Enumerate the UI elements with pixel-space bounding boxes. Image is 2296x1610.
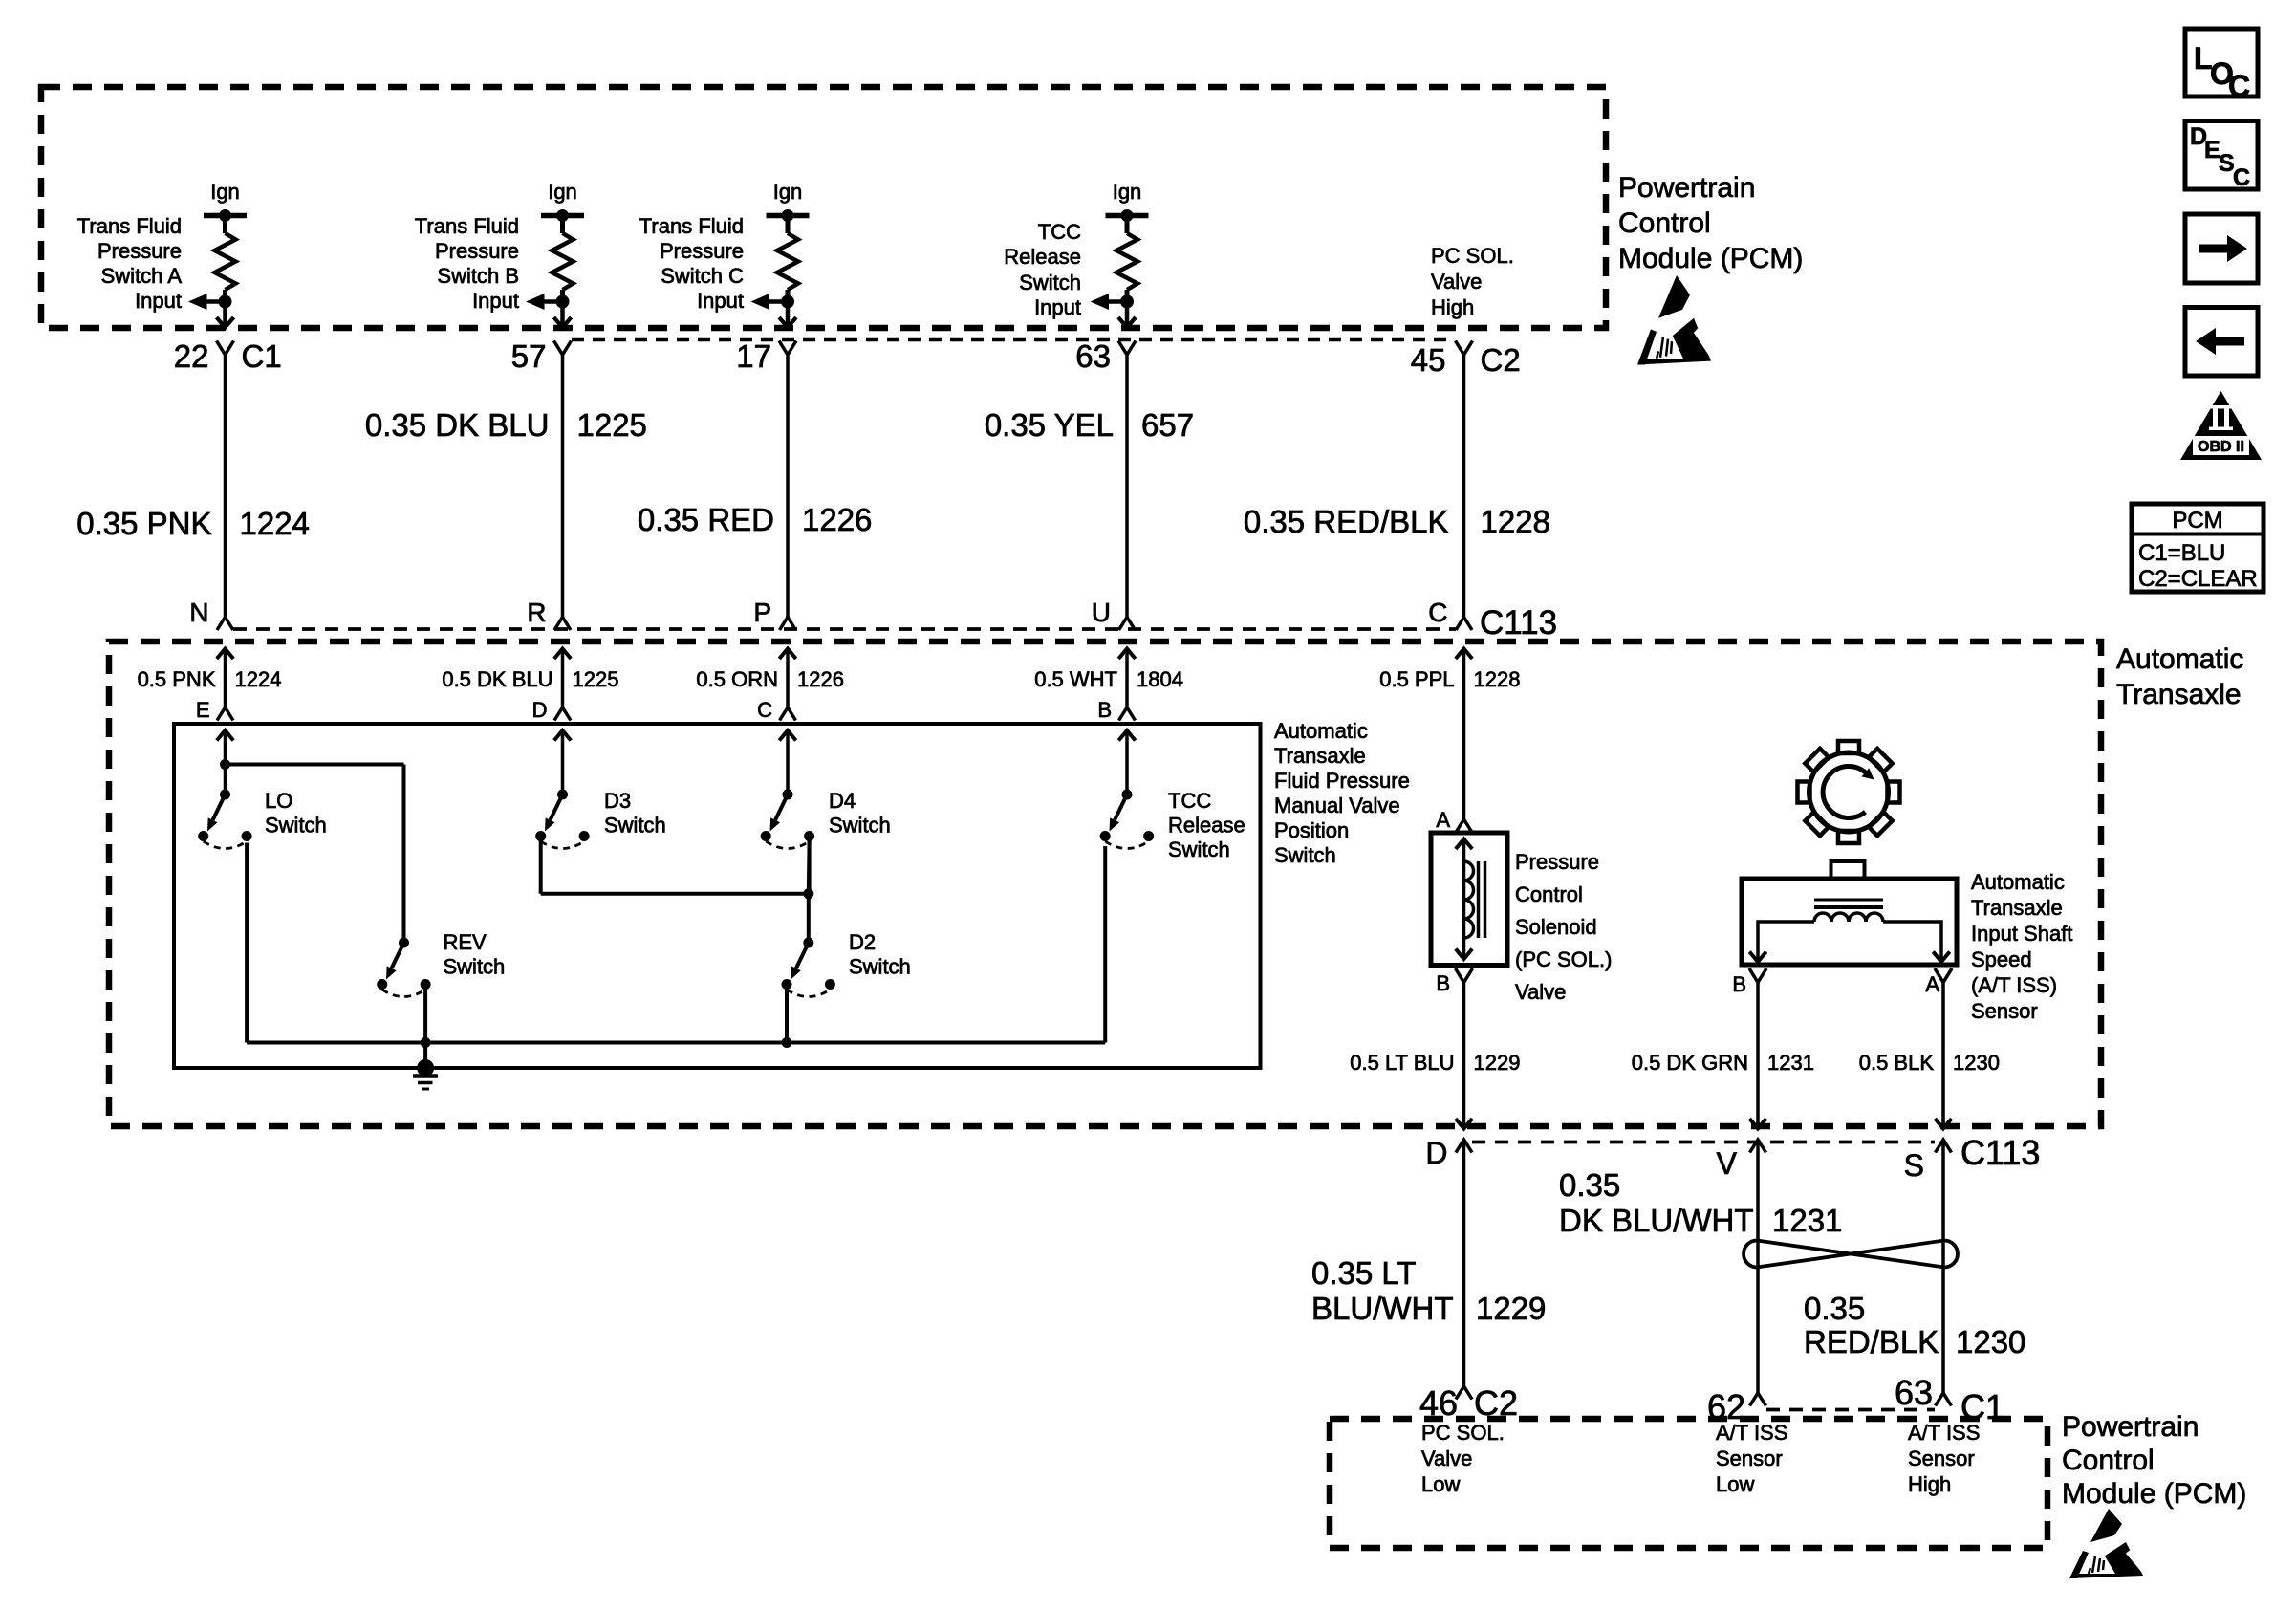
svg-text:1229: 1229 bbox=[1476, 1291, 1546, 1326]
svg-text:Switch: Switch bbox=[604, 814, 666, 838]
svg-text:Control: Control bbox=[1618, 207, 1711, 239]
svg-text:Pressure: Pressure bbox=[97, 239, 182, 263]
svg-text:1226: 1226 bbox=[802, 502, 872, 537]
svg-text:OBD II: OBD II bbox=[2198, 439, 2244, 455]
svg-text:Switch: Switch bbox=[1168, 838, 1230, 861]
svg-text:Powertrain: Powertrain bbox=[1618, 172, 1755, 204]
svg-text:V: V bbox=[1717, 1146, 1738, 1181]
svg-text:1228: 1228 bbox=[1474, 667, 1521, 691]
svg-text:1225: 1225 bbox=[577, 407, 647, 443]
svg-text:Trans Fluid: Trans Fluid bbox=[77, 214, 182, 238]
svg-text:46: 46 bbox=[1419, 1383, 1458, 1423]
svg-text:PC SOL.: PC SOL. bbox=[1421, 1421, 1505, 1445]
svg-text:0.5 ORN: 0.5 ORN bbox=[696, 667, 778, 691]
svg-text:C2: C2 bbox=[1474, 1383, 1518, 1423]
svg-text:Automatic: Automatic bbox=[1971, 870, 2065, 894]
svg-text:0.5 WHT: 0.5 WHT bbox=[1034, 667, 1117, 691]
svg-text:Ign: Ign bbox=[548, 180, 577, 204]
svg-text:Transaxle: Transaxle bbox=[1971, 896, 2063, 920]
svg-text:22: 22 bbox=[174, 338, 209, 374]
svg-text:0.5 DK GRN: 0.5 DK GRN bbox=[1632, 1051, 1748, 1075]
svg-text:Switch C: Switch C bbox=[661, 264, 744, 288]
svg-text:Ign: Ign bbox=[1113, 180, 1142, 204]
svg-text:Input Shaft: Input Shaft bbox=[1971, 922, 2072, 946]
svg-text:Switch: Switch bbox=[1019, 271, 1081, 294]
svg-text:Pressure: Pressure bbox=[660, 239, 744, 263]
svg-text:BLU/WHT: BLU/WHT bbox=[1311, 1291, 1454, 1326]
svg-text:D4: D4 bbox=[829, 789, 856, 813]
svg-text:High: High bbox=[1431, 295, 1474, 319]
svg-text:Ign: Ign bbox=[210, 180, 240, 204]
svg-text:Switch: Switch bbox=[829, 814, 891, 838]
svg-text:Manual Valve: Manual Valve bbox=[1274, 794, 1400, 817]
svg-text:Input: Input bbox=[135, 289, 182, 313]
svg-text:1224: 1224 bbox=[240, 506, 310, 541]
svg-text:D2: D2 bbox=[849, 930, 876, 954]
svg-text:Trans Fluid: Trans Fluid bbox=[639, 214, 744, 238]
svg-text:C: C bbox=[2233, 164, 2250, 191]
svg-text:Solenoid: Solenoid bbox=[1515, 915, 1597, 939]
svg-text:Trans Fluid: Trans Fluid bbox=[415, 214, 519, 238]
svg-text:B: B bbox=[1436, 971, 1450, 995]
svg-text:0.35 DK BLU: 0.35 DK BLU bbox=[365, 407, 550, 443]
svg-text:C: C bbox=[757, 698, 772, 722]
svg-text:REV: REV bbox=[444, 930, 487, 954]
svg-text:17: 17 bbox=[736, 338, 771, 374]
svg-text:1804: 1804 bbox=[1137, 667, 1183, 691]
svg-text:Automatic: Automatic bbox=[2116, 643, 2243, 675]
svg-text:Input: Input bbox=[472, 289, 519, 313]
svg-text:Transaxle: Transaxle bbox=[1274, 744, 1366, 768]
svg-text:1225: 1225 bbox=[573, 667, 619, 691]
svg-text:C: C bbox=[2228, 69, 2250, 103]
svg-text:1231: 1231 bbox=[1767, 1051, 1814, 1075]
svg-text:1230: 1230 bbox=[1953, 1051, 2000, 1075]
svg-text:C113: C113 bbox=[1480, 604, 1557, 642]
svg-text:RED/BLK: RED/BLK bbox=[1804, 1324, 1939, 1360]
svg-text:Input: Input bbox=[697, 289, 744, 313]
svg-text:1224: 1224 bbox=[235, 667, 282, 691]
svg-text:S: S bbox=[1904, 1148, 1924, 1183]
svg-text:PCM: PCM bbox=[2172, 508, 2222, 533]
svg-text:E: E bbox=[196, 698, 210, 722]
svg-text:DK BLU/WHT: DK BLU/WHT bbox=[1559, 1203, 1754, 1238]
svg-text:Ign: Ign bbox=[773, 180, 803, 204]
svg-text:PC SOL.: PC SOL. bbox=[1431, 244, 1514, 268]
svg-text:A: A bbox=[1925, 972, 1939, 996]
svg-text:63: 63 bbox=[1895, 1373, 1933, 1412]
svg-text:Valve: Valve bbox=[1515, 980, 1566, 1004]
svg-text:U: U bbox=[1092, 598, 1111, 627]
svg-text:C: C bbox=[1428, 598, 1447, 627]
svg-text:B: B bbox=[1732, 972, 1746, 996]
svg-text:P: P bbox=[753, 598, 771, 627]
svg-text:Fluid Pressure: Fluid Pressure bbox=[1274, 769, 1410, 793]
svg-text:0.5 DK BLU: 0.5 DK BLU bbox=[442, 667, 552, 691]
svg-text:R: R bbox=[527, 598, 546, 627]
svg-text:0.35: 0.35 bbox=[1559, 1167, 1620, 1203]
svg-text:Pressure: Pressure bbox=[435, 239, 519, 263]
svg-text:Release: Release bbox=[1168, 814, 1245, 838]
svg-text:Switch: Switch bbox=[444, 955, 506, 979]
svg-text:1229: 1229 bbox=[1474, 1051, 1521, 1075]
svg-text:Control: Control bbox=[1515, 882, 1583, 906]
svg-text:0.35 PNK: 0.35 PNK bbox=[76, 506, 211, 541]
svg-text:Low: Low bbox=[1716, 1472, 1754, 1496]
svg-text:High: High bbox=[1908, 1472, 1951, 1496]
svg-text:Pressure: Pressure bbox=[1515, 850, 1599, 874]
svg-text:Powertrain: Powertrain bbox=[2062, 1411, 2199, 1443]
svg-text:Automatic: Automatic bbox=[1274, 719, 1368, 743]
svg-text:Speed: Speed bbox=[1971, 947, 2032, 971]
svg-text:45: 45 bbox=[1411, 342, 1446, 378]
svg-text:Control: Control bbox=[2062, 1445, 2155, 1476]
svg-text:0.5 BLK: 0.5 BLK bbox=[1859, 1051, 1935, 1075]
svg-text:C2=CLEAR: C2=CLEAR bbox=[2138, 566, 2258, 592]
svg-text:Switch: Switch bbox=[265, 814, 327, 838]
svg-text:0.35: 0.35 bbox=[1804, 1291, 1865, 1326]
svg-text:0.35 YEL: 0.35 YEL bbox=[985, 407, 1114, 443]
svg-text:0.5 PNK: 0.5 PNK bbox=[138, 667, 216, 691]
svg-text:D: D bbox=[532, 698, 548, 722]
svg-text:657: 657 bbox=[1141, 407, 1194, 443]
svg-text:TCC: TCC bbox=[1038, 220, 1081, 244]
svg-text:Module (PCM): Module (PCM) bbox=[1618, 243, 1803, 274]
svg-text:C113: C113 bbox=[1960, 1133, 2040, 1172]
svg-text:63: 63 bbox=[1075, 338, 1111, 374]
svg-text:C1: C1 bbox=[242, 338, 282, 374]
svg-text:Input: Input bbox=[1034, 295, 1081, 319]
svg-text:Switch A: Switch A bbox=[101, 264, 183, 288]
svg-text:TCC: TCC bbox=[1168, 789, 1211, 813]
svg-text:Low: Low bbox=[1421, 1472, 1460, 1496]
svg-text:Switch B: Switch B bbox=[437, 264, 519, 288]
svg-text:1226: 1226 bbox=[797, 667, 844, 691]
svg-text:Valve: Valve bbox=[1431, 270, 1482, 294]
svg-text:0.5 LT BLU: 0.5 LT BLU bbox=[1350, 1051, 1454, 1075]
svg-text:Switch: Switch bbox=[849, 955, 911, 979]
svg-text:Module (PCM): Module (PCM) bbox=[2062, 1478, 2246, 1510]
svg-text:0.35 RED: 0.35 RED bbox=[638, 502, 774, 537]
svg-text:LO: LO bbox=[265, 789, 292, 813]
svg-text:Sensor: Sensor bbox=[1716, 1447, 1783, 1470]
svg-text:Position: Position bbox=[1274, 818, 1349, 842]
svg-text:Sensor: Sensor bbox=[1908, 1447, 1975, 1470]
svg-text:A: A bbox=[1436, 808, 1450, 832]
svg-text:A/T ISS: A/T ISS bbox=[1716, 1421, 1787, 1445]
svg-text:Switch: Switch bbox=[1274, 843, 1336, 867]
svg-text:Valve: Valve bbox=[1421, 1447, 1472, 1470]
svg-text:(PC SOL.): (PC SOL.) bbox=[1515, 947, 1612, 971]
svg-text:Transaxle: Transaxle bbox=[2116, 679, 2242, 710]
svg-text:1230: 1230 bbox=[1956, 1324, 2025, 1360]
svg-text:0.35 RED/BLK: 0.35 RED/BLK bbox=[1244, 504, 1449, 539]
svg-text:0.5 PPL: 0.5 PPL bbox=[1379, 667, 1454, 691]
svg-text:D3: D3 bbox=[604, 789, 631, 813]
svg-text:Release: Release bbox=[1004, 245, 1081, 269]
svg-text:Sensor: Sensor bbox=[1971, 999, 2038, 1023]
svg-text:D: D bbox=[1425, 1136, 1447, 1170]
svg-text:(A/T ISS): (A/T ISS) bbox=[1971, 973, 2057, 997]
svg-text:0.35 LT: 0.35 LT bbox=[1311, 1255, 1416, 1291]
svg-text:C2: C2 bbox=[1481, 342, 1521, 378]
svg-text:C1=BLU: C1=BLU bbox=[2138, 540, 2225, 566]
svg-text:57: 57 bbox=[511, 338, 547, 374]
svg-text:1228: 1228 bbox=[1481, 504, 1550, 539]
svg-text:1231: 1231 bbox=[1772, 1203, 1842, 1238]
svg-text:B: B bbox=[1097, 698, 1112, 722]
svg-text:A/T ISS: A/T ISS bbox=[1908, 1421, 1980, 1445]
svg-text:N: N bbox=[189, 598, 208, 627]
